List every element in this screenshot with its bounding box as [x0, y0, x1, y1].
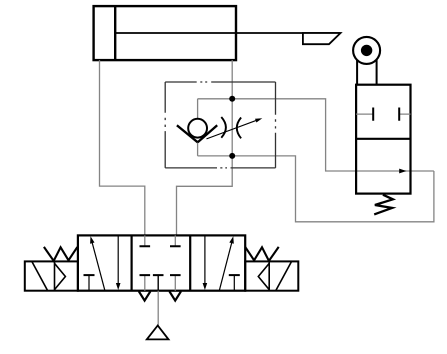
wire cylinder left port to valve port 4	[100, 60, 145, 235]
roller valve return spring	[374, 195, 393, 215]
wire node B down to valve port 2	[177, 156, 233, 236]
check valve branch lines	[198, 99, 233, 156]
exhaust port 5	[139, 291, 151, 300]
wire through roller valve flow path	[356, 170, 434, 172]
check valve seat	[177, 125, 217, 142]
center box blocked port stems	[145, 235, 176, 290]
roller valve blocked position symbols	[356, 113, 410, 115]
roller lever wheel	[353, 37, 380, 64]
piston rod	[115, 32, 340, 34]
check valve ball	[188, 119, 207, 138]
wire through throttle node A to node B	[231, 99, 233, 156]
right box arrow 1 to 2	[219, 241, 232, 291]
right centering spring	[245, 247, 279, 261]
left solenoid pilot actuator	[25, 261, 78, 290]
left box arrow 1 to 4	[92, 241, 105, 291]
node A	[229, 96, 235, 102]
left centering spring	[44, 247, 78, 261]
roller valve body	[356, 85, 410, 194]
left box blocked port 5	[88, 275, 90, 291]
right box arrow 4 to 5	[204, 236, 206, 285]
throttle adjustment arrow	[207, 120, 259, 139]
center box blocked port bars	[140, 246, 181, 275]
wire roller valve outlet back to node B	[232, 156, 434, 222]
roller valve flow arrow	[399, 169, 406, 174]
right solenoid pilot actuator	[245, 261, 298, 290]
cam on rod end	[303, 33, 341, 44]
cylinder body	[94, 6, 236, 60]
exhaust port 3	[169, 291, 181, 300]
flow control assembly dash-dot enclosure	[165, 81, 275, 83]
right box blocked port 3	[233, 275, 235, 291]
wire node A to roller valve inlet	[232, 99, 356, 171]
supply line	[157, 291, 159, 326]
wire cylinder right port to node A	[231, 60, 233, 99]
supply triangle	[147, 326, 169, 340]
5/3 valve body	[78, 235, 245, 290]
left box arrow 2 to 3	[117, 236, 119, 285]
throttle arcs	[221, 117, 241, 138]
roller lever stem	[357, 60, 377, 86]
cylinder piston	[114, 6, 116, 60]
node B	[229, 153, 235, 159]
